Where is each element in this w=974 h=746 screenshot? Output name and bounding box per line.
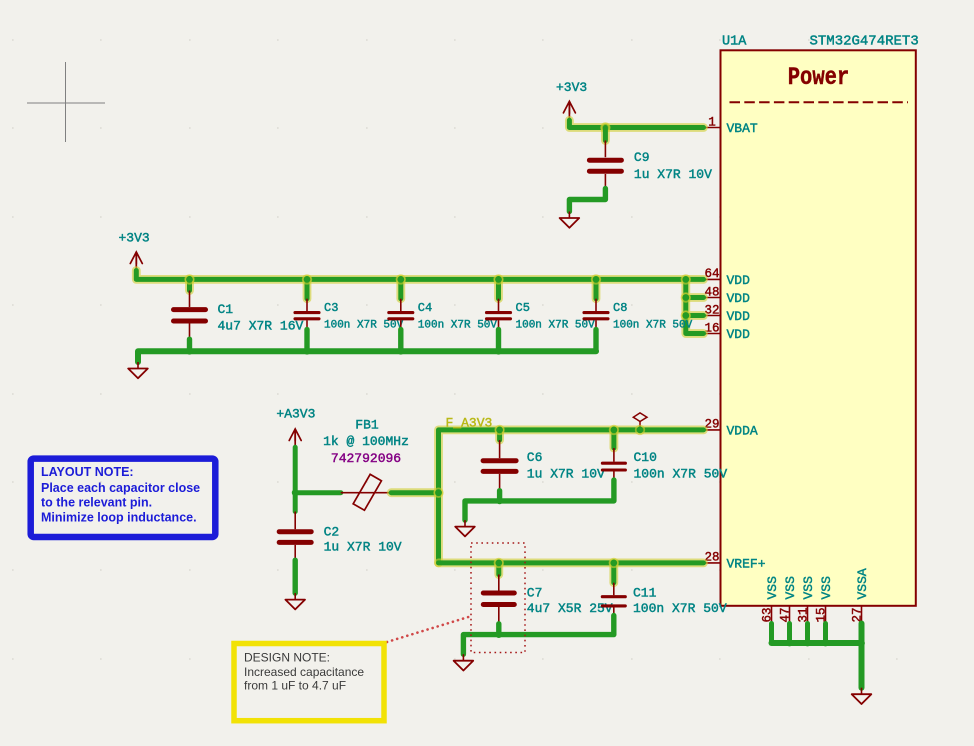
wire C9 to ground (569, 189, 605, 212)
wire ground jog C11/C7 (463, 616, 613, 655)
wire stub to C1 (185, 279, 194, 290)
junction VREF+ / C7 (494, 558, 504, 568)
svg-text:C1: C1 (218, 302, 234, 317)
wire ground bus (VDD caps) (138, 351, 596, 362)
junction VSS bus / VSSA (858, 640, 865, 647)
junction ground jog / C7 (495, 631, 502, 638)
svg-text:47: 47 (778, 607, 792, 622)
wire stub to C4 (396, 279, 405, 298)
svg-text:C2: C2 (324, 525, 340, 540)
wire C3 to ground bus (304, 330, 309, 352)
svg-text:STM32G474RET3: STM32G474RET3 (810, 34, 919, 50)
pin 15 VSS (814, 576, 834, 624)
capacitor C2 (279, 512, 311, 561)
svg-text:100n X7R 50V: 100n X7R 50V (613, 320, 693, 332)
capacitor C3 (295, 299, 319, 330)
svg-text:100n X7R 50V: 100n X7R 50V (324, 320, 404, 332)
wire stub to C5 (494, 279, 503, 298)
wire C6 to ground jog (497, 491, 502, 501)
power symbol +3V3 (VDD rail) (119, 231, 150, 271)
svg-text:C8: C8 (613, 301, 627, 315)
svg-text:C10: C10 (634, 450, 657, 465)
junction VDDA / C10 (609, 425, 619, 435)
pin 1 VBAT (704, 115, 758, 136)
svg-text:VDD: VDD (727, 291, 751, 306)
wire stub to C3 (303, 279, 312, 298)
junction VSS bus 15 (822, 640, 829, 647)
svg-text:FB1: FB1 (355, 418, 379, 433)
text box LAYOUT NOTE (31, 459, 216, 537)
svg-text:Place each capacitor close: Place each capacitor close (41, 481, 200, 495)
svg-text:from 1 uF to 4.7 uF: from 1 uF to 4.7 uF (244, 678, 346, 692)
pin 64 VDD (704, 267, 751, 288)
svg-text:1u X7R 10V: 1u X7R 10V (634, 167, 712, 182)
junction VDD comb 32 (681, 310, 691, 320)
svg-text:100n X7R 50V: 100n X7R 50V (633, 601, 727, 616)
svg-text:+3V3: +3V3 (119, 231, 150, 246)
svg-text:C9: C9 (634, 150, 650, 165)
wire to pin VDD 32 (686, 298, 704, 316)
junction F_A3V3 / FB1 (433, 488, 443, 498)
junction rail / C4 (396, 274, 406, 284)
junction rail / C8 (591, 274, 601, 284)
svg-text:C5: C5 (516, 301, 530, 315)
svg-text:U1A: U1A (722, 35, 747, 50)
capacitor C7 (483, 575, 514, 624)
svg-text:63: 63 (760, 607, 774, 622)
svg-text:+A3V3: +A3V3 (276, 407, 315, 422)
svg-text:1: 1 (708, 115, 716, 129)
wire VSS pin at x=825.5 (823, 624, 828, 644)
svg-text:C4: C4 (418, 301, 432, 315)
pin 63 VSS (760, 576, 780, 624)
callout dotted leader line (387, 617, 470, 643)
svg-text:VDDA: VDDA (727, 424, 758, 439)
pin 31 VSS (796, 576, 816, 624)
wire C8 to ground bus (593, 330, 598, 352)
wire VSS pin at x=807.5 (805, 624, 810, 644)
svg-text:VSS: VSS (783, 576, 798, 600)
ground below C6 (455, 520, 475, 536)
svg-text:Increased capacitance: Increased capacitance (244, 665, 364, 679)
junction ground jog / C6 (496, 498, 503, 505)
text box DESIGN NOTE (234, 644, 384, 721)
capacitor C9 (589, 141, 621, 189)
junction VBAT / C9 (600, 122, 610, 132)
wire VDD rail (136, 271, 703, 280)
svg-text:1u X7R 10V: 1u X7R 10V (527, 467, 605, 482)
svg-text:VSS: VSS (801, 576, 816, 600)
pin 48 VDD (704, 285, 751, 306)
wire VSS pin at x=771.5 (769, 624, 774, 644)
pin 47 VSS (778, 576, 798, 624)
svg-text:VDD: VDD (727, 309, 751, 324)
ground below C7 (454, 654, 474, 670)
wire FB1 out to F_A3V3 vertical (391, 488, 438, 497)
junction ground bus / C3 (304, 348, 311, 355)
svg-text:27: 27 (850, 607, 864, 622)
svg-text:VSSA: VSSA (855, 568, 870, 599)
ferrite bead FB1 (341, 474, 391, 510)
wire +A3V3 to FB1 (295, 490, 341, 495)
wire C1 to ground bus (187, 339, 192, 351)
wire stub to C9 (601, 128, 610, 141)
wire F_A3V3 to pin VDDA (439, 430, 704, 563)
pin 28 VREF+ (704, 551, 766, 572)
wire VSS pin at x=789.5 (787, 624, 792, 644)
svg-text:742792096: 742792096 (331, 451, 401, 466)
capacitor C6 (483, 440, 516, 491)
wire stub to C10 (610, 430, 619, 448)
capacitor C10 (602, 448, 625, 480)
svg-text:31: 31 (796, 607, 810, 622)
wire stub to C7 (494, 563, 503, 575)
junction ground bus / C5 (495, 348, 502, 355)
capacitor C11 (602, 583, 625, 616)
svg-text:to the relevant pin.: to the relevant pin. (41, 496, 152, 510)
svg-text:DESIGN NOTE:: DESIGN NOTE: (244, 651, 330, 665)
junction VDDA / power flag (635, 425, 645, 435)
svg-text:VBAT: VBAT (727, 121, 758, 136)
svg-text:C11: C11 (633, 586, 657, 601)
svg-text:C3: C3 (324, 301, 338, 315)
wire C4 to ground bus (398, 330, 403, 352)
svg-text:F_A3V3: F_A3V3 (446, 416, 493, 431)
pin 29 VDDA (704, 418, 758, 439)
junction VREF+ / C11 (609, 558, 619, 568)
pin 16 VDD (704, 321, 751, 342)
junction VDD comb 48 (681, 292, 691, 302)
wire to pin VDD 16 (686, 316, 704, 334)
wire stub to C8 (592, 279, 601, 298)
svg-text:VDD: VDD (727, 327, 751, 342)
capacitor C1 (174, 291, 206, 340)
power symbol +3V3 (VBAT) (556, 80, 587, 120)
wire VSSA down to ground (859, 624, 865, 688)
power symbol +A3V3 (276, 407, 315, 448)
ground below VSSA (852, 688, 872, 704)
wire C2 to ground (293, 560, 298, 593)
svg-text:VSS: VSS (765, 576, 780, 600)
unit divider dashed line (730, 101, 909, 103)
capacitor C8 (584, 299, 608, 330)
svg-text:100n X7R 50V: 100n X7R 50V (418, 320, 498, 332)
junction ground bus / C1 (186, 348, 193, 355)
IC U1A STM32G474RET3 body (721, 50, 916, 606)
wire +A3V3 down to C2 (293, 447, 298, 511)
svg-text:100n X7R 50V: 100n X7R 50V (634, 467, 728, 482)
svg-text:+3V3: +3V3 (556, 80, 587, 95)
ground at VDD bus (128, 362, 148, 378)
junction rail / C1 (184, 274, 194, 284)
svg-text:Power: Power (788, 63, 850, 91)
svg-text:C6: C6 (527, 450, 543, 465)
junction VSS bus 31 (804, 640, 811, 647)
svg-text:LAYOUT NOTE:: LAYOUT NOTE: (41, 465, 134, 479)
junction VDD comb top (681, 274, 691, 284)
junction rail / C3 (302, 274, 312, 284)
wire stub to C11 (609, 563, 618, 583)
svg-text:4u7 X7R 16V: 4u7 X7R 16V (218, 319, 304, 334)
pin 32 VDD (704, 303, 751, 324)
svg-text:VDD: VDD (727, 273, 751, 288)
junction +A3V3 / FB1 / C2 (292, 489, 299, 496)
svg-text:VREF+: VREF+ (727, 557, 766, 572)
ground below C9 (560, 212, 580, 228)
capacitor C5 (487, 299, 511, 330)
ground below C2 (285, 593, 305, 609)
svg-text:15: 15 (814, 607, 828, 622)
svg-text:4u7 X5R 25V: 4u7 X5R 25V (527, 601, 613, 616)
svg-text:1u X7R 10V: 1u X7R 10V (324, 540, 402, 555)
capacitor C4 (389, 299, 413, 330)
svg-text:Minimize loop inductance.: Minimize loop inductance. (41, 510, 197, 524)
pin 27 VSSA (850, 568, 870, 623)
junction rail / C5 (493, 274, 503, 284)
wire stub to C6 (495, 430, 504, 440)
svg-text:1k @ 100MHz: 1k @ 100MHz (323, 434, 409, 449)
junction VSS bus 47 (786, 640, 793, 647)
junction VDDA / C6 (494, 425, 504, 435)
power flag PWR_FLAG on VDDA (633, 413, 647, 430)
svg-text:100n X7R 50V: 100n X7R 50V (516, 320, 596, 332)
wire to pin VDD 48 (686, 279, 704, 297)
wire F_A3V3 to pin VREF+ (439, 559, 704, 568)
svg-text:C7: C7 (527, 586, 543, 601)
cursor crosshair (27, 62, 105, 142)
wire C7 to ground jog (496, 624, 501, 635)
wire C5 to ground bus (496, 330, 501, 352)
svg-text:VSS: VSS (819, 576, 834, 600)
wire +3V3 to pin VBAT (569, 120, 703, 127)
wire VSS bus (772, 640, 862, 646)
highlight dotted rectangle around C7 (471, 543, 525, 653)
junction ground bus / C4 (397, 348, 404, 355)
wire ground jog C10/C6 (465, 480, 614, 520)
